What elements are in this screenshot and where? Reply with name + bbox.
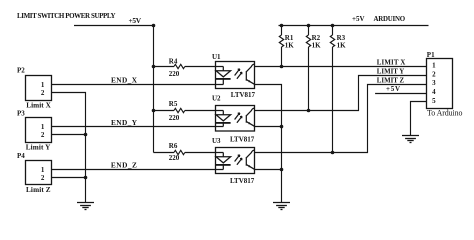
svg-text:P2: P2 (17, 67, 25, 75)
svg-text:P3: P3 (17, 110, 25, 118)
svg-text:END_Y: END_Y (111, 118, 138, 127)
svg-text:R5: R5 (169, 100, 178, 108)
svg-text:1: 1 (432, 61, 436, 69)
svg-text:LIMIT Y: LIMIT Y (377, 68, 404, 75)
svg-text:ARDUINO: ARDUINO (374, 16, 406, 23)
svg-text:2: 2 (41, 174, 45, 182)
svg-text:1: 1 (41, 166, 45, 174)
svg-text:1K: 1K (337, 42, 347, 50)
svg-text:U2: U2 (212, 95, 221, 103)
svg-text:1: 1 (41, 123, 45, 131)
svg-text:Limit Y: Limit Y (26, 144, 51, 152)
svg-text:LIMIT Z: LIMIT Z (377, 77, 405, 84)
svg-text:U1: U1 (212, 53, 221, 61)
svg-text:5: 5 (432, 97, 436, 105)
svg-text:2: 2 (41, 89, 45, 97)
svg-text:220: 220 (169, 114, 180, 122)
svg-text:U3: U3 (212, 137, 221, 145)
svg-text:1K: 1K (285, 42, 295, 50)
svg-text:2: 2 (432, 70, 436, 78)
svg-text:LTV817: LTV817 (230, 136, 255, 144)
svg-text:LTV817: LTV817 (231, 91, 256, 99)
svg-text:Limit Z: Limit Z (26, 186, 51, 194)
svg-text:+5V: +5V (386, 85, 400, 93)
svg-text:P1: P1 (427, 51, 435, 59)
svg-text:LTV817: LTV817 (230, 177, 255, 185)
svg-text:220: 220 (169, 154, 180, 162)
svg-text:220: 220 (169, 70, 180, 78)
svg-text:+5V: +5V (352, 15, 365, 23)
svg-text:2: 2 (41, 131, 45, 139)
svg-text:LIMIT SWITCH POWER SUPPLY: LIMIT SWITCH POWER SUPPLY (17, 12, 116, 20)
svg-text:END_X: END_X (111, 76, 138, 85)
svg-text:Limit X: Limit X (26, 101, 51, 109)
svg-text:END_Z: END_Z (111, 160, 137, 169)
svg-text:3: 3 (432, 79, 436, 87)
svg-text:4: 4 (432, 88, 436, 96)
svg-text:R6: R6 (169, 142, 178, 150)
svg-text:LIMIT X: LIMIT X (377, 59, 406, 66)
svg-text:To Arduino: To Arduino (427, 109, 463, 118)
svg-text:1K: 1K (312, 42, 322, 50)
svg-text:+5V: +5V (129, 16, 142, 25)
svg-text:R4: R4 (169, 58, 178, 66)
svg-text:P4: P4 (17, 152, 25, 160)
svg-text:1: 1 (41, 81, 45, 89)
